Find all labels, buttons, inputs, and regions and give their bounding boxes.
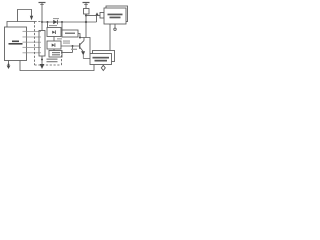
node dot F	[79, 37, 81, 39]
wire U2 to U3	[53, 37, 55, 42]
wire rail up to fan feed	[96, 16, 98, 23]
M1 aux leg wire	[114, 24, 116, 28]
buffer U5 box	[62, 30, 78, 37]
wire RN1 bottom lead	[41, 56, 43, 65]
node dot A	[41, 21, 43, 23]
U2 label smudge	[49, 25, 57, 26]
wire U5 out to base node	[78, 34, 80, 38]
ground arrow GND2	[40, 64, 45, 69]
node dot H	[72, 45, 74, 47]
block U4 box	[49, 51, 62, 58]
wire U4 out	[62, 52, 73, 54]
wire rail to regulator U2	[47, 22, 49, 28]
transistor Q1	[80, 41, 90, 59]
wire U3 to U4	[53, 49, 55, 51]
wire rail to RN1 top	[41, 22, 43, 31]
feedback loop wire with arrow	[18, 10, 34, 22]
supply V+ 2	[83, 3, 90, 9]
U4 label marks	[52, 52, 60, 55]
U3 internal symbol	[52, 43, 55, 47]
node dot D	[85, 21, 87, 23]
M1 tach leg wire	[109, 24, 111, 51]
M1 label text	[108, 14, 123, 19]
value text lines in dashed box	[47, 59, 58, 63]
diode D1 on rail	[53, 20, 57, 24]
comparator U3 box	[47, 41, 61, 49]
wire Q1 collector up	[83, 38, 85, 41]
RN1 internal tick marks	[39, 32, 41, 53]
pin stub wires right of U1	[27, 32, 40, 53]
connector J1	[100, 13, 104, 19]
current arrow at fan feed	[95, 12, 98, 15]
label under buffer U5	[63, 41, 70, 44]
supply V+ 1	[39, 3, 46, 23]
fan motor M1 box	[104, 8, 126, 24]
resistor network RN1 tall box	[39, 31, 45, 57]
S1 label text	[93, 57, 110, 62]
U1 label text	[9, 41, 23, 45]
open terminal circle	[114, 28, 116, 30]
regulator U2 box	[47, 28, 61, 37]
diamond connector under S1	[101, 65, 105, 70]
fuse F1 box	[84, 9, 90, 15]
fan controller IC U1 box	[5, 27, 27, 61]
Q1 label smudge	[71, 49, 77, 50]
wire collector net	[80, 38, 90, 54]
wire F1 to rail	[85, 14, 87, 22]
node dot G	[85, 15, 87, 17]
wire U3 out to Q1 base	[61, 45, 80, 47]
wire fan feed	[86, 15, 97, 17]
node dot E	[41, 59, 43, 61]
wire rail node D down	[85, 22, 87, 38]
+12V rail wire	[42, 21, 97, 23]
wire node H to U4 out	[72, 46, 74, 53]
sensor S1 back box	[93, 51, 115, 62]
node dot C	[61, 21, 63, 23]
U2 internal diode symbol	[52, 30, 55, 34]
U5 label marks	[65, 33, 75, 35]
fan motor M1 back box	[106, 6, 128, 22]
U1 pin name smudges inside right edge	[23, 31, 27, 53]
sensor S1 box	[90, 54, 112, 65]
ground GND1 under U1	[7, 61, 11, 70]
wire rail down to buffer U5	[61, 22, 63, 30]
wire U1 GND pin to bottom rail	[20, 61, 94, 71]
dashed option box	[35, 22, 62, 66]
D1 label smudge	[53, 18, 59, 19]
wire to connector	[97, 15, 101, 17]
wire U1 top pin to +12V rail	[7, 22, 35, 28]
node dot B	[47, 21, 49, 23]
A2 gap label smudge	[57, 38, 62, 39]
